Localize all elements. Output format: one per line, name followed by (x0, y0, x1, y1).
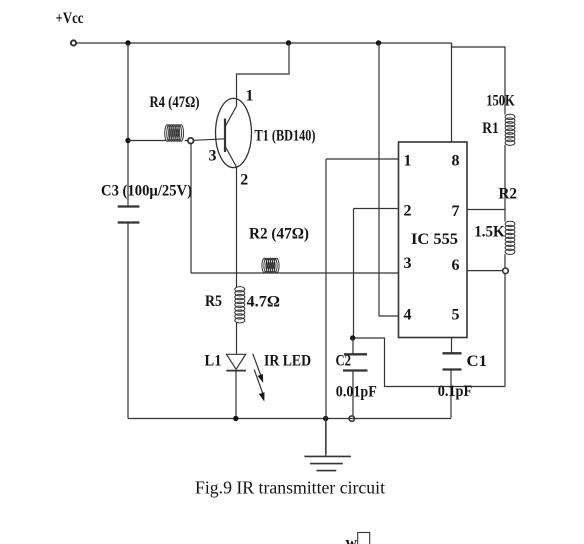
wire pin6 lead (467, 270, 503, 272)
wire output line pin3 (191, 272, 399, 274)
wire pin5 down to C1 (451, 338, 453, 354)
LED L1 cathode bar (226, 370, 246, 372)
node pin6 (open circle) (503, 268, 509, 274)
capacitor C3 plate bottom (118, 221, 140, 223)
wire pin2 lead (354, 208, 399, 210)
svg-text:1: 1 (246, 88, 254, 105)
node junction R4 branch (125, 138, 130, 143)
ground bar 3 (317, 470, 337, 472)
capacitor C2 lead top (352, 338, 354, 354)
svg-text:+Vcc: +Vcc (56, 10, 84, 27)
node C2 top junction (350, 335, 355, 340)
svg-text:IC 555: IC 555 (411, 231, 458, 248)
wire pin4 lead (379, 315, 399, 317)
bottom-edge artifact box (358, 533, 370, 544)
node junction Vcc-C3 (125, 40, 130, 45)
ground bar 2 (310, 463, 343, 465)
node junction Vcc-collector (286, 40, 291, 45)
svg-text:L1: L1 (205, 353, 222, 370)
node base (open circle after R4) (188, 138, 194, 144)
resistor R5 coil (235, 287, 245, 323)
capacitor C2 lead bottom (352, 371, 354, 416)
wire bottom rail (128, 418, 451, 420)
wire R5 to LED (236, 323, 238, 355)
wire C3 to bottom rail (127, 223, 129, 419)
svg-text:3: 3 (404, 255, 412, 272)
wire base node down to output line (190, 144, 192, 273)
transistor T1 body (216, 98, 252, 167)
transistor T1 base bar (224, 119, 226, 153)
ground bar 1 (304, 455, 351, 457)
svg-text:2: 2 (404, 203, 412, 220)
svg-text:Fig.9 IR transmitter circuit: Fig.9 IR transmitter circuit (195, 478, 385, 498)
svg-text:6: 6 (452, 257, 460, 274)
svg-text:4.7Ω: 4.7Ω (247, 294, 281, 311)
+Vcc terminal (71, 40, 76, 45)
node LED-rail junction (233, 416, 238, 421)
resistor R2(47) coil (262, 258, 279, 273)
wire pin7 lead (467, 209, 505, 211)
svg-text:R4 (47Ω): R4 (47Ω) (150, 94, 200, 111)
wire left branch down to C3 (127, 43, 129, 207)
node junction Vcc-pin4 (376, 40, 381, 45)
svg-text:R2 (47Ω): R2 (47Ω) (249, 226, 309, 243)
capacitor C3 plate top (118, 205, 140, 207)
wire base node to transistor base (194, 139, 225, 141)
svg-text:5: 5 (452, 307, 460, 324)
capacitor C2 plate bottom (343, 369, 368, 371)
capacitor C1 plate bottom (443, 368, 462, 370)
LED arrow 2 (254, 370, 264, 402)
svg-text:3: 3 (209, 148, 217, 165)
transistor T1 collector lead (225, 43, 289, 127)
wire pin2 down to C2 (353, 209, 355, 339)
wire pin1 lead (326, 158, 399, 160)
LED L1 triangle (227, 354, 246, 369)
transistor T1 emitter lead (225, 146, 237, 287)
svg-text:1: 1 (404, 153, 412, 170)
svg-text:R5: R5 (205, 293, 222, 310)
wire top rail (76, 42, 451, 44)
wire pin4 up to rail (378, 43, 380, 316)
wire pin8 up to rail (451, 43, 453, 142)
svg-text:0.1pF: 0.1pF (438, 383, 473, 400)
svg-text:7: 7 (452, 203, 460, 220)
resistor R4 coil (165, 125, 184, 141)
svg-text:0.01pF: 0.01pF (336, 384, 377, 401)
IC U1 555 body (399, 142, 468, 338)
svg-text:8: 8 (452, 153, 460, 170)
svg-text:C1: C1 (467, 353, 488, 370)
capacitor C2 plate top (344, 353, 367, 355)
svg-text:C2: C2 (336, 353, 352, 370)
capacitor C1 lead bottom (450, 370, 452, 418)
wire ground stem (325, 419, 327, 456)
wire pin6 node down right side (504, 274, 506, 387)
wire jog to C2 top (355, 338, 505, 387)
resistor R1 coil (505, 114, 515, 145)
LED arrow 1 (253, 354, 263, 383)
svg-text:IR LED: IR LED (264, 353, 311, 370)
resistor R2(1.5K) coil (505, 221, 515, 254)
wire rail branch to R1 (452, 43, 506, 115)
node ground junction (323, 416, 328, 421)
node C2-rail terminal (open) (349, 416, 354, 421)
svg-text:C3 (100µ/25V): C3 (100µ/25V) (101, 183, 192, 200)
wire R2 to pin6 node (504, 254, 506, 268)
svg-text:150K: 150K (486, 93, 515, 110)
svg-text:R2: R2 (499, 186, 518, 203)
wire LED to bottom rail (235, 371, 237, 419)
wire R1 to R2 (504, 145, 506, 222)
wire R4 left lead (128, 140, 166, 142)
wire R4 right lead (185, 140, 188, 142)
svg-text:2: 2 (240, 172, 248, 189)
svg-text:4: 4 (404, 307, 412, 324)
wire pin1 to ground rail (325, 159, 327, 455)
svg-text:T1 (BD140): T1 (BD140) (255, 128, 316, 145)
svg-text:1.5K: 1.5K (474, 224, 505, 241)
svg-text:w: w (346, 535, 358, 544)
svg-text:R1: R1 (482, 120, 499, 137)
capacitor C1 plate top (443, 352, 462, 354)
